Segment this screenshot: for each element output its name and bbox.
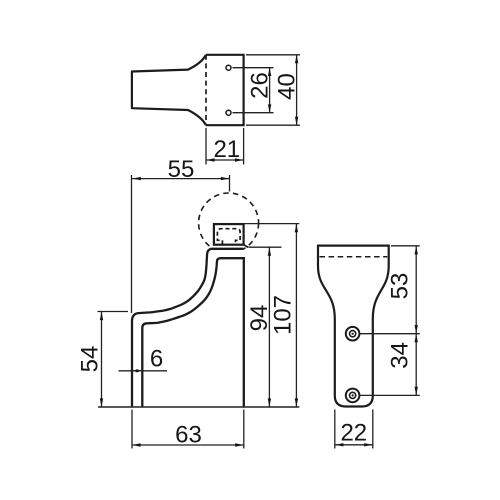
side view screw hole upper [346, 327, 360, 341]
dimension 53 [387, 246, 418, 334]
dimension 94 [246, 247, 273, 407]
top view screw hole upper [226, 65, 231, 70]
dimension 26 [246, 68, 273, 113]
svg-text:55: 55 [168, 156, 195, 183]
saddle corner chamfer [244, 245, 249, 248]
extension lines for dim 26 [233, 68, 274, 113]
dimension 54 [77, 312, 104, 408]
dimension 55 [132, 156, 229, 183]
svg-text:22: 22 [340, 420, 367, 447]
top view screw hole lower [226, 110, 231, 115]
extension lines for dim 22 [335, 410, 373, 449]
bracket outer profile [132, 249, 244, 407]
extension line for dim 94 (top) [249, 246, 282, 248]
svg-text:54: 54 [77, 346, 104, 373]
extension line for dim 107 (top) [245, 223, 300, 225]
side view hidden edge (dashed) [320, 256, 388, 258]
dimension 40 [273, 55, 300, 125]
extension lines for dim 63 [132, 410, 244, 449]
bottom reference line [98, 406, 299, 408]
dimension 34 [387, 334, 418, 396]
top view mounting plate outline [206, 55, 244, 125]
side view outline [318, 246, 389, 407]
dimension 107 [270, 224, 299, 407]
bracket body fill (hides rail circle behind material) [132, 249, 244, 407]
dimension 6 [119, 346, 168, 373]
side view screw hole lower [346, 389, 360, 403]
extension lines for dim 40 [246, 55, 300, 125]
svg-text:53: 53 [387, 273, 414, 300]
svg-text:6: 6 [150, 346, 163, 373]
dimension 21 [206, 136, 244, 163]
handrail cross-section (dashed circle) [199, 193, 259, 253]
extension lines for dim 55 [132, 175, 230, 313]
dimension 63 [132, 422, 244, 449]
top view arm outline [132, 55, 206, 125]
svg-text:34: 34 [387, 342, 414, 369]
rail saddle plate [214, 224, 244, 245]
extension line for dim 54 (top) [98, 311, 129, 313]
svg-text:26: 26 [246, 72, 273, 99]
svg-text:21: 21 [213, 136, 240, 163]
extension lines for dims 53/34 [360, 246, 420, 396]
saddle channel insert (hidden, dashed) [217, 229, 240, 245]
top view hidden edge (dashed) [205, 55, 207, 125]
extension lines for dim 21 [206, 128, 244, 165]
svg-text:107: 107 [270, 295, 297, 335]
svg-text:63: 63 [175, 422, 202, 449]
svg-text:40: 40 [273, 73, 300, 100]
dimension 22 [335, 420, 373, 447]
bracket inner profile [142, 258, 244, 407]
